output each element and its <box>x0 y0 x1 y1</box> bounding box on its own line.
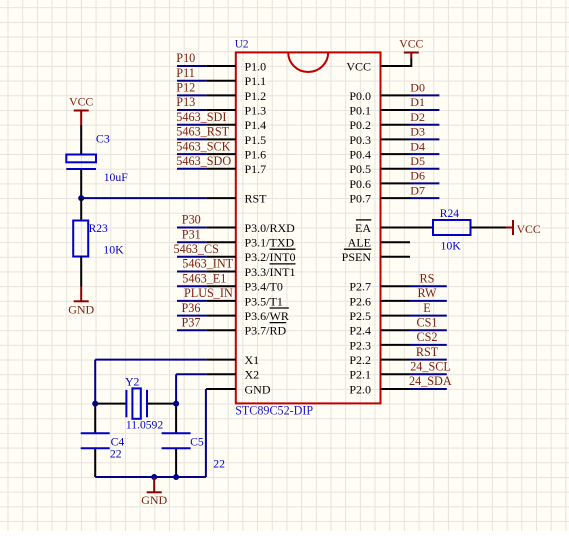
svg-text:RST: RST <box>245 192 268 206</box>
svg-text:D0: D0 <box>410 81 425 95</box>
svg-text:C5: C5 <box>190 435 204 448</box>
svg-text:5463_SCK: 5463_SCK <box>176 139 230 153</box>
svg-text:P2.7: P2.7 <box>349 280 371 294</box>
svg-text:Y2: Y2 <box>125 376 139 389</box>
svg-text:C4: C4 <box>111 435 125 448</box>
svg-text:P12: P12 <box>176 81 195 95</box>
svg-text:X2: X2 <box>245 368 260 382</box>
svg-text:10K: 10K <box>103 243 124 257</box>
svg-text:P3.4/T0: P3.4/T0 <box>245 280 283 294</box>
svg-text:P37: P37 <box>182 315 201 329</box>
svg-text:P1.4: P1.4 <box>245 118 267 132</box>
svg-text:E: E <box>423 301 430 315</box>
svg-text:D2: D2 <box>410 110 425 124</box>
svg-text:P2.5: P2.5 <box>349 309 371 323</box>
svg-text:VCC: VCC <box>517 223 541 236</box>
svg-text:X1: X1 <box>245 353 260 367</box>
svg-text:C3: C3 <box>96 132 110 146</box>
svg-text:RW: RW <box>418 286 437 300</box>
svg-text:P31: P31 <box>182 227 201 241</box>
svg-text:D4: D4 <box>410 139 425 153</box>
svg-text:VCC: VCC <box>69 96 93 109</box>
svg-text:D6: D6 <box>410 169 425 183</box>
svg-text:EA: EA <box>355 221 371 235</box>
svg-text:RS: RS <box>420 271 435 285</box>
svg-text:P2.0: P2.0 <box>349 382 371 396</box>
svg-text:P0.5: P0.5 <box>349 162 371 176</box>
svg-text:P1.7: P1.7 <box>245 162 267 176</box>
svg-text:P2.3: P2.3 <box>349 338 371 352</box>
svg-text:D1: D1 <box>410 95 425 109</box>
svg-text:P0.4: P0.4 <box>349 148 371 162</box>
svg-text:P1.3: P1.3 <box>245 103 267 117</box>
svg-text:VCC: VCC <box>399 38 423 51</box>
svg-text:VCC: VCC <box>346 59 371 73</box>
svg-text:P3.1/TXD: P3.1/TXD <box>245 236 295 250</box>
svg-text:24_SCL: 24_SCL <box>410 360 451 374</box>
svg-text:R23: R23 <box>89 223 108 235</box>
svg-text:P10: P10 <box>176 51 195 65</box>
svg-text:5463_SDI: 5463_SDI <box>176 110 226 124</box>
svg-text:5463_INT: 5463_INT <box>182 257 233 271</box>
svg-text:P2.1: P2.1 <box>349 368 371 382</box>
svg-text:ALE: ALE <box>348 236 371 250</box>
svg-text:P1.2: P1.2 <box>245 89 267 103</box>
svg-text:P2.2: P2.2 <box>349 353 371 367</box>
svg-text:CS1: CS1 <box>416 315 437 329</box>
svg-text:PSEN: PSEN <box>342 250 372 264</box>
svg-text:10uF: 10uF <box>104 171 129 184</box>
svg-text:D5: D5 <box>410 154 425 168</box>
svg-text:R24: R24 <box>440 208 459 220</box>
svg-text:U2: U2 <box>235 38 249 50</box>
svg-text:P2.4: P2.4 <box>349 324 371 338</box>
svg-text:RST: RST <box>416 345 439 359</box>
svg-text:P0.2: P0.2 <box>349 118 371 132</box>
svg-text:P0.7: P0.7 <box>349 192 371 206</box>
svg-text:5463_RST: 5463_RST <box>176 125 229 139</box>
svg-text:P30: P30 <box>182 213 201 227</box>
svg-text:P3.5/T1: P3.5/T1 <box>245 294 283 308</box>
svg-text:P3.0/RXD: P3.0/RXD <box>245 221 296 235</box>
svg-text:P11: P11 <box>176 66 195 80</box>
svg-text:P0.1: P0.1 <box>349 103 371 117</box>
svg-text:P3.3/INT1: P3.3/INT1 <box>245 265 296 279</box>
svg-text:CS2: CS2 <box>416 330 437 344</box>
svg-text:GND: GND <box>68 302 94 316</box>
svg-text:PLUS_IN: PLUS_IN <box>184 286 233 300</box>
svg-text:24_SDA: 24_SDA <box>409 374 452 388</box>
svg-text:P2.6: P2.6 <box>349 294 371 308</box>
svg-text:P1.5: P1.5 <box>245 133 267 147</box>
svg-text:5463_SDO: 5463_SDO <box>176 154 231 168</box>
svg-text:P3.7/RD: P3.7/RD <box>245 324 287 338</box>
svg-text:P1.6: P1.6 <box>245 148 267 162</box>
svg-text:5463_CS: 5463_CS <box>174 242 220 256</box>
svg-text:STC89C52-DIP: STC89C52-DIP <box>235 404 313 418</box>
svg-text:P0.6: P0.6 <box>349 177 371 191</box>
svg-text:5463_E1: 5463_E1 <box>182 271 226 285</box>
svg-text:P13: P13 <box>176 95 195 109</box>
svg-text:P3.2/INT0: P3.2/INT0 <box>245 250 296 264</box>
svg-text:P1.0: P1.0 <box>245 59 267 73</box>
svg-text:11.0592: 11.0592 <box>126 419 163 432</box>
svg-text:P3.6/WR: P3.6/WR <box>245 309 289 323</box>
svg-text:22: 22 <box>213 458 225 471</box>
svg-text:P36: P36 <box>182 301 201 315</box>
svg-text:22: 22 <box>110 448 122 461</box>
svg-text:P0.0: P0.0 <box>349 89 371 103</box>
svg-text:D7: D7 <box>410 183 425 197</box>
svg-text:10K: 10K <box>441 239 462 253</box>
svg-text:P0.3: P0.3 <box>349 133 371 147</box>
svg-text:GND: GND <box>245 382 271 396</box>
svg-text:D3: D3 <box>410 125 425 139</box>
svg-text:GND: GND <box>141 493 167 507</box>
svg-text:P1.1: P1.1 <box>245 74 267 88</box>
